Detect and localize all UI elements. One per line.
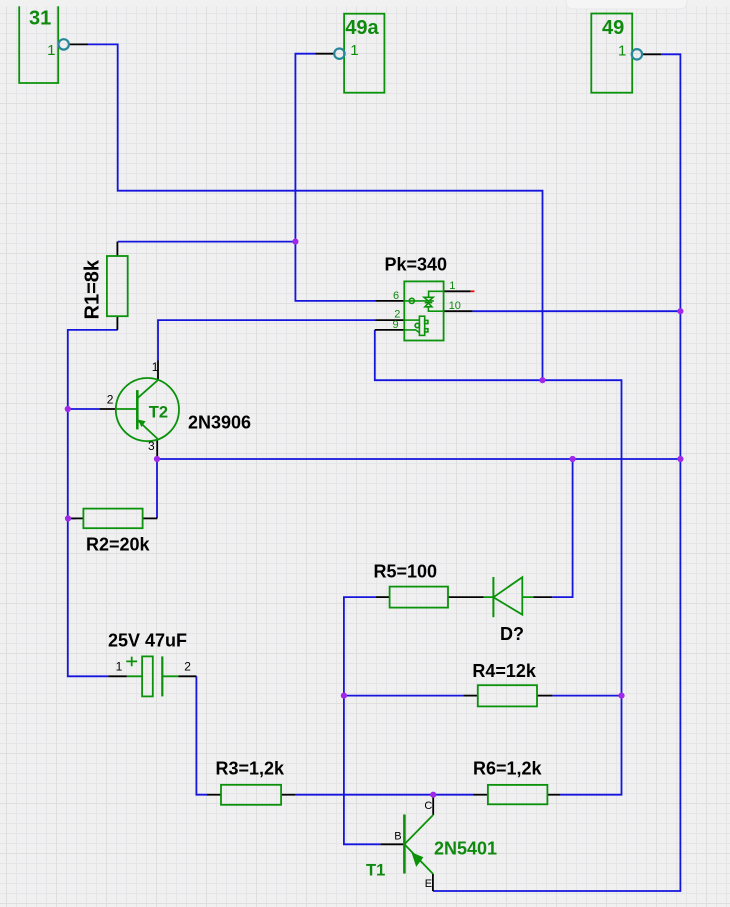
svg-text:1: 1 <box>449 280 455 292</box>
port 49a bubble <box>334 49 344 59</box>
port 31 bubble <box>59 39 69 49</box>
transistor T1 collector diagonal <box>404 815 433 844</box>
transistor T2 circle <box>116 378 179 441</box>
transistor T1 base bar <box>403 815 406 874</box>
svg-text:1: 1 <box>47 42 55 59</box>
T2 pin3 stub <box>156 439 158 459</box>
wire net31 from port 31 down and across to pin9 column <box>88 44 543 380</box>
svg-text:9: 9 <box>393 319 399 331</box>
svg-text:2: 2 <box>107 393 114 407</box>
R4 left stub <box>463 695 478 697</box>
port 49 bubble <box>632 49 642 59</box>
resistor R6 body <box>488 785 548 804</box>
wire T2 pin3 down to R2 <box>156 459 158 518</box>
top toolbar strip <box>0 0 730 7</box>
svg-text:2: 2 <box>184 659 191 673</box>
diode D? triangle <box>493 577 522 614</box>
Pk pin2 inner lead <box>404 319 419 321</box>
resistor R1 body <box>107 256 128 316</box>
wire net49 from port 49 down right edge to emitter row <box>433 54 681 891</box>
Pk pin9 inner lead <box>404 330 419 333</box>
wire T1 collector junction to R6 left <box>433 794 473 796</box>
Pk diac bar <box>425 302 433 304</box>
capacitor plus sign <box>126 657 137 667</box>
svg-text:E: E <box>425 878 432 890</box>
diode D? cathode bar <box>492 577 494 617</box>
port 49 stub <box>642 53 661 55</box>
Pk pin2 stub <box>376 319 405 321</box>
svg-text:Pk=340: Pk=340 <box>385 255 448 275</box>
transistor T2 emitter diagonal <box>137 420 157 439</box>
Pk pin1 inner lead <box>429 291 444 297</box>
wire R4 left row <box>344 695 463 697</box>
T2 base stub <box>100 408 116 410</box>
T1 emitter stub <box>432 874 434 891</box>
svg-text:3: 3 <box>148 439 155 453</box>
node diode column / pin3 row <box>570 456 576 462</box>
port 31 stub <box>69 43 88 45</box>
svg-text:R5=100: R5=100 <box>374 562 438 582</box>
Pk pin10 stub <box>444 310 473 312</box>
svg-text:1: 1 <box>350 42 358 59</box>
resistor R5 body <box>390 587 448 608</box>
svg-text:10: 10 <box>449 300 461 312</box>
svg-text:31: 31 <box>29 7 51 29</box>
resistor R3 body <box>221 785 281 805</box>
Pk pin9 stub <box>375 329 405 331</box>
toolbar button fragment <box>566 0 687 9</box>
node T2 base / left column <box>65 406 71 412</box>
node T2 pin3 / R2 right <box>154 456 160 462</box>
capacitor C1 leads <box>127 675 178 677</box>
resistor R2 body <box>83 509 142 529</box>
port box 49a <box>344 14 384 93</box>
R1 bottom stub <box>116 316 118 330</box>
capacitor C1 right plate <box>161 656 163 696</box>
capacitor C1 left plate <box>142 656 153 696</box>
capacitor pin2 stub <box>178 675 196 677</box>
R2 left stub <box>71 517 83 519</box>
Pk pin1 stub <box>444 290 471 292</box>
Pk output bump lower <box>425 329 428 332</box>
port box 49 <box>591 14 632 93</box>
Pk output element body <box>419 316 424 335</box>
svg-text:T2: T2 <box>149 403 168 421</box>
svg-text:R1=8k: R1=8k <box>82 259 104 319</box>
node R4 left <box>341 693 347 699</box>
resistor R4 body <box>478 685 537 706</box>
wire capacitor pin2 down to R3 <box>196 676 207 794</box>
R6 right stub <box>547 794 560 796</box>
node pin10 / right edge <box>677 308 683 314</box>
Pk pin6 inner lead <box>404 300 434 302</box>
wire T2 pin1 to Pk pin2 <box>158 320 376 360</box>
svg-text:B: B <box>394 831 401 843</box>
relay Pk body box <box>404 281 443 340</box>
svg-text:R4=12k: R4=12k <box>472 661 537 681</box>
transistor T2 collector diagonal <box>137 380 158 398</box>
svg-text:2N5401: 2N5401 <box>434 839 497 859</box>
wire R5 left column down to T1 base <box>344 597 381 844</box>
diode anode stub <box>533 596 552 598</box>
transistor T2 emitter arrow <box>138 420 145 428</box>
wire R1 top to net49a <box>118 241 296 243</box>
node pin3 row / right edge <box>677 456 683 462</box>
svg-text:25V 47uF: 25V 47uF <box>108 630 187 650</box>
svg-text:49a: 49a <box>345 17 379 39</box>
wire R4 right to right column <box>552 695 621 697</box>
wire net49a from port 49a down to Pk pin6 <box>295 54 375 301</box>
node R1 top / net49a <box>292 239 298 245</box>
svg-text:1: 1 <box>618 43 626 60</box>
diode D? leads <box>484 596 534 598</box>
svg-text:D?: D? <box>500 624 524 644</box>
Pk output bump upper <box>425 320 428 323</box>
Pk pin1 open-end marker (red) <box>471 290 475 292</box>
svg-text:R6=1,2k: R6=1,2k <box>473 759 543 779</box>
Pk upper triangle <box>424 297 433 301</box>
node R2 left / left column <box>65 515 71 521</box>
wire R3 right to T1 collector junction <box>295 794 433 796</box>
transistor T1 emitter arrow <box>411 852 423 867</box>
R3 right stub <box>281 794 295 796</box>
Pk pin6 stub <box>375 300 404 302</box>
port box 31 <box>19 6 58 83</box>
node net31 / pin9 row <box>539 377 545 383</box>
wire diode anode up to pin3 row <box>552 459 572 597</box>
svg-text:T1: T1 <box>366 862 385 880</box>
R2 right stub <box>143 517 158 519</box>
svg-text:1: 1 <box>152 360 159 374</box>
node R4 right <box>618 693 624 699</box>
wire Pk pin10 to right edge <box>472 310 680 312</box>
R1 top stub <box>116 242 118 256</box>
svg-text:R2=20k: R2=20k <box>86 535 151 555</box>
Pk gate circle <box>415 323 419 327</box>
wire pin9 row and right column down to R6 <box>375 330 622 795</box>
port 49a stub <box>315 53 334 55</box>
svg-text:1: 1 <box>116 659 123 673</box>
svg-text:49: 49 <box>602 17 624 39</box>
svg-text:6: 6 <box>393 290 399 302</box>
T2 pin1 stub <box>157 361 159 381</box>
R6 left stub <box>473 794 488 796</box>
transistor T2 base lead <box>116 408 138 410</box>
transistor T1 emitter diagonal <box>404 844 433 873</box>
wire T2 base stub row <box>68 408 100 410</box>
wire T2 pin3 row <box>157 458 680 460</box>
T1 base stub <box>381 843 405 845</box>
svg-text:R3=1,2k: R3=1,2k <box>216 759 286 779</box>
wire R2 left stub row <box>68 517 76 519</box>
Pk lower triangle <box>425 303 432 307</box>
T1 collector stub <box>432 795 434 815</box>
R5 right stub <box>448 596 484 598</box>
R4 right stub <box>537 695 552 697</box>
R3 left stub <box>207 794 221 796</box>
wire left column R1 bottom to capacitor <box>68 330 118 676</box>
node T1 collector <box>430 792 436 798</box>
Pk pin6 circle <box>409 298 414 303</box>
capacitor pin1 stub <box>108 675 127 677</box>
Pk pin10 inner lead <box>428 307 443 311</box>
svg-text:2N3906: 2N3906 <box>188 413 251 433</box>
R5 left stub <box>376 596 390 598</box>
transistor T2 base bar <box>136 390 139 429</box>
svg-text:C: C <box>424 800 432 812</box>
